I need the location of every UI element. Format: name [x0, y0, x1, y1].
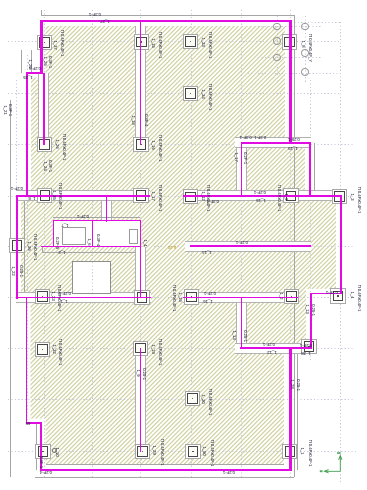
column C11 inner: [286, 191, 297, 202]
circle column K3: [273, 54, 281, 62]
grid line x=340.2: [340, 22, 341, 482]
label 0.3F-4 at 97.5,240.1: [95, 234, 99, 246]
elevator opening: [72, 261, 111, 294]
label Π 0.4Fx0.4F-1 at 60,196: [58, 183, 62, 210]
label 0.3F-1 .0,3F-1 at 253,136.5: [240, 134, 266, 138]
column C9 inner: [136, 190, 147, 201]
slab edge right lower: [289, 348, 291, 472]
dimension line bottom: [35, 476, 294, 479]
column C12 outer: [332, 189, 347, 204]
column C1 dot: [44, 42, 45, 43]
label 1_9 at 285.5,197: [283, 193, 287, 200]
column C8 dot: [44, 195, 45, 196]
label 0.2F-5 at 56.7,242.5: [54, 236, 58, 248]
label 1_30 at 203,399: [201, 394, 205, 403]
label 1_29 at 154.4,450: [152, 445, 156, 454]
beam V5 x107: [106, 196, 108, 222]
column C4 outer: [282, 34, 297, 49]
label 0.3F-1 at 49.6,61.5: [47, 55, 51, 67]
label 1_14 at 206.6,251.8: [202, 250, 211, 254]
slab edge step y72: [26, 72, 43, 74]
column C8 inner: [40, 190, 51, 201]
grid line y=144.4: [8, 144, 355, 145]
label 0.2F-1 at 210,293: [204, 291, 216, 295]
column C22 dot: [16, 245, 17, 246]
column C12 dot: [339, 196, 340, 197]
grid line y=57.5: [258, 57, 322, 58]
label 0.25-1 at 312.8,310: [311, 304, 315, 316]
grid line x=277: [277, 16, 278, 82]
stair opening band gray top: [53, 216, 140, 219]
label 0.25-1 at 244.7,336: [242, 330, 246, 342]
label Π 0.4Fx0.4F-1 at 211.5,453: [209, 440, 213, 467]
label Π 0.4Fx0.4F-1 at 159.8,198: [158, 185, 162, 212]
grid through elevator: [92, 262, 93, 293]
label 1_3 at 351.8,197: [350, 193, 354, 200]
column C17 inner: [333, 291, 344, 302]
grid line y=73.4: [248, 73, 341, 74]
slab edge x16 (195-299): [16, 195, 18, 299]
column C9 dot: [140, 195, 141, 196]
label 0.25-1 at 21.2,271: [19, 265, 23, 277]
label 0.3F-4 at 145.6,120: [143, 114, 147, 126]
column C26 inner: [285, 446, 296, 457]
label 1_4 at 351.8,295: [350, 291, 354, 298]
label Π 0.4Fx0.4F-1 at 59.6,352: [57, 339, 61, 366]
slab edge x25.5 (297-423): [26, 297, 28, 423]
column C19 outer: [133, 341, 148, 356]
gray right of notch edge: [313, 143, 316, 197]
circle column K6: [301, 68, 309, 76]
column C19 inner: [135, 343, 146, 354]
grid line y=399.4: [8, 399, 355, 400]
label 0.3F-1 at 40.8,462: [39, 456, 43, 468]
stair opening divider: [92, 220, 94, 247]
column C6 outer: [37, 137, 52, 152]
label 1_19 at 293,147.5: [288, 145, 297, 149]
label 1_50 at 204.4,451: [202, 446, 206, 455]
grid line x=16.6: [16, 80, 17, 300]
label 0.2F-1 at 242.3,242.2: [236, 240, 248, 244]
column C18 dot: [42, 349, 43, 350]
beam H6 y246: [190, 245, 311, 247]
column C4 dot: [289, 41, 290, 42]
column C24 outer: [135, 444, 150, 459]
column C10 dot: [190, 196, 191, 197]
column C12 inner: [334, 191, 345, 202]
slab edge notch bottom y293: [310, 293, 342, 295]
label 6.40 orange: [168, 245, 176, 249]
beam H8 y348: [240, 347, 312, 349]
column C25 dot: [192, 451, 193, 452]
circle column K2: [273, 37, 281, 45]
label Π 0.4Fx0.4F-1 at 159.8,45: [158, 32, 162, 59]
column C16 outer: [284, 289, 299, 304]
extension tick x31: [30, 50, 33, 73]
beam band V3: [135, 247, 146, 297]
column C23 inner: [38, 446, 49, 457]
label 1_32 at 54,349: [52, 344, 56, 353]
slab edge x309: [309, 142, 311, 196]
beam band H7b: [183, 292, 299, 303]
column C24 dot: [142, 451, 143, 452]
dimension line top: [41, 14, 294, 17]
beam H7a y297: [16, 297, 151, 299]
column C7 outer: [133, 137, 148, 152]
label 0.3F-1 at 49.8,166: [48, 160, 52, 172]
column C21 inner: [187, 393, 198, 404]
label 0.2F-4 at 46,472.3: [40, 470, 52, 474]
label 1_1 at 64,301.2: [60, 299, 67, 303]
label 1_12 at 271.8,352.3: [267, 350, 276, 354]
slab edge x310 lower: [310, 293, 312, 350]
label 1_28 at 292.3,384: [290, 379, 294, 388]
slab edge bottom: [40, 469, 291, 472]
beam band V7: [236, 298, 247, 348]
label Π 0.4Fx0.4F-1 at 160,352: [158, 339, 162, 366]
beam band H6: [185, 241, 311, 252]
beam band V2: [135, 26, 146, 145]
label 1_6 at 89.3,241.7: [87, 238, 91, 245]
column C21 dot: [192, 398, 193, 399]
label 1_36 at 29,246: [27, 241, 31, 250]
grid line y=22: [291, 22, 341, 23]
grid line x=191.4: [191, 10, 192, 478]
column C9 outer: [133, 188, 148, 203]
label Π 0.4Fx0.4F-1 at 279.4,198: [277, 185, 281, 212]
column C7 inner: [136, 139, 147, 150]
label 1_26 at 57,144: [55, 139, 59, 148]
circle column K5: [301, 49, 309, 57]
column C4 inner: [284, 37, 295, 48]
grid line y=451.4: [8, 451, 358, 452]
slab edge x26 (72-196): [26, 72, 28, 197]
beam V3 x140: [140, 247, 142, 298]
column C14 inner: [137, 292, 148, 303]
column C20 dot: [308, 346, 309, 347]
label 1_27 at 105,20.6: [100, 18, 109, 22]
column C26 dot: [289, 451, 290, 452]
column C5 outer: [183, 86, 198, 101]
gray line under opening: [42, 251, 141, 254]
column C2 inner: [136, 37, 147, 48]
grid line y=93.4: [8, 93, 341, 94]
label 65 at 27.5,423.3: [25, 421, 30, 425]
label Π 0.4Fx0.4F-1 at 174,298: [172, 285, 176, 312]
label 0.3F-1 at 9.8,110: [8, 104, 12, 116]
label 1_25 at 28,76.5: [23, 74, 32, 78]
column C22 inner: [12, 240, 23, 251]
column C2 outer: [134, 34, 149, 49]
column C14 dot: [141, 297, 142, 298]
label Π 0.4Fx0.4F-1 at 358.6,200: [356, 187, 360, 214]
label 0.25-1 at 293.5,139: [288, 137, 300, 141]
column C16 inner: [286, 291, 297, 302]
column C11 outer: [283, 188, 298, 203]
label Π 0.4Fx0.4F-1 at 61.5,43: [59, 30, 63, 57]
grid line y=297.5: [8, 297, 355, 298]
column C25 outer: [185, 444, 200, 459]
column C1 inner: [39, 37, 50, 48]
column C19 dot: [140, 348, 141, 349]
beam V7 x240: [241, 298, 243, 349]
dimension line left: [9, 100, 12, 477]
label 1_34 at 202.8,93.5: [201, 89, 205, 98]
label 1_38 at 305.5,353: [301, 351, 310, 355]
column C15 outer: [184, 289, 199, 304]
column C23 outer: [35, 444, 50, 459]
label Π 0.4Fx0.4F-1 at 358.6,298: [356, 285, 360, 312]
label 1_15 at 261,200.3: [256, 198, 265, 202]
label 1_17 at 236.3,157: [234, 152, 238, 161]
label 1_17 at 152.8,196: [151, 191, 155, 200]
column C20 outer: [301, 339, 316, 354]
column C13 dot: [42, 296, 43, 297]
column C22 outer: [9, 238, 24, 253]
stair opening outer: [53, 220, 141, 247]
beam band H8: [235, 343, 313, 354]
label 1_13 at 306.8,309: [305, 304, 309, 313]
column C20 inner: [304, 341, 315, 352]
label 1_8 at 32,198.2: [28, 196, 35, 200]
label 0.2F-1 at 269,343.6: [263, 341, 275, 345]
column C5 dot: [190, 93, 191, 94]
grid line x=92.8: [92, 10, 93, 478]
beam H3a y195: [16, 195, 150, 197]
column C7 dot: [140, 144, 141, 145]
grid line x=140.6: [140, 10, 141, 478]
label Π 0.4Fx0.4F-1 at 161.5,452: [159, 439, 163, 466]
label Π 0.4Fx0.4F_Y at 310,48: [308, 34, 312, 62]
beam band V6: [236, 144, 247, 196]
grid line y=26.5: [258, 26, 322, 27]
label 1_15 at 152.8,43: [151, 38, 155, 47]
label 0.2F-1 at 331.6,292: [326, 290, 338, 294]
column C2 dot: [141, 41, 142, 42]
grid line y=41.6: [8, 41, 341, 42]
column C6 dot: [44, 144, 45, 145]
beam V1 x44: [43, 73, 45, 145]
beam V6 x240: [241, 144, 243, 196]
circle column K1: [273, 23, 281, 31]
grid line x=241: [241, 10, 242, 478]
grid line x=310.9: [310, 80, 311, 362]
slab edge right upper: [289, 20, 291, 144]
label 1_1 at 302.3,451: [300, 447, 304, 454]
label 1_16 at 207.5,301.3: [203, 299, 212, 303]
beam H7b y297: [183, 297, 299, 299]
circle column K4: [301, 23, 309, 31]
slab edge x40 lower: [40, 422, 42, 470]
label 1_19 at 152.5,349: [150, 344, 154, 353]
beam H3b y195: [183, 195, 341, 197]
label 1_15 at 180,296.5: [178, 292, 182, 301]
label 0.2F-1 at 64.5,292.6: [58, 290, 70, 294]
column C25 inner: [188, 446, 199, 457]
label 0.2F-1 at 34.5,67.5: [28, 65, 40, 69]
column C17 outer: [330, 288, 345, 303]
column C8 outer: [37, 188, 52, 203]
label 0.2F-1 at 229,472.3: [223, 470, 235, 474]
label 1_18 at 133,120: [131, 115, 135, 124]
label 1_24 at 44.8,166: [43, 161, 47, 170]
label 1_10 at 57,452: [55, 447, 59, 456]
label 1_20 at 30,64: [28, 59, 32, 68]
column C11 dot: [290, 195, 291, 196]
grid line x=44: [44, 10, 45, 478]
beam band V5: [101, 196, 112, 221]
label circle at C23: [52, 448, 57, 453]
beam band H2: [235, 137, 312, 148]
grid line y=348.3: [8, 348, 355, 349]
tick top dim: [40, 10, 43, 17]
label 1_12 at 202.5,196: [200, 191, 204, 200]
label 1_35 at 54,195: [52, 190, 56, 199]
label 1_2 at 61.5,251.7: [58, 249, 65, 253]
slab edge step y422: [26, 422, 43, 424]
slab edge top: [41, 20, 292, 22]
extension tick x21: [20, 50, 23, 73]
column C6 inner: [39, 139, 50, 150]
axis icon: [318, 448, 348, 478]
gray left of lower-left edge: [35, 424, 38, 470]
label Π 0.4Fx0.4F-1 at 309.8,453: [308, 440, 312, 467]
label 1_4 at 144.5,242.5: [142, 239, 146, 246]
label Π 0.4Fx0.4F-1 at 64,147: [62, 134, 66, 161]
label 1_21 at 4.5,110: [2, 105, 6, 114]
stair inner rect: [62, 227, 87, 246]
label 1_16 at 152.8,145: [151, 140, 155, 149]
label 0.2F-1 at 245.3,158: [243, 152, 247, 164]
column C24 inner: [137, 446, 148, 457]
column C18 inner: [37, 344, 48, 355]
label 1_37 at 55,45: [53, 40, 57, 49]
column C3 inner: [185, 36, 196, 47]
label 0.25-1 at 298.4,385: [296, 379, 300, 391]
beam band H3a: [16, 190, 150, 201]
slab edge x340 notch: [340, 195, 342, 294]
slab edge left x41 upper: [40, 20, 42, 74]
label 1_9 at 137.5,373: [135, 369, 139, 376]
label 0.2F-1 at 260,191.5: [254, 189, 266, 193]
column C13 inner: [37, 291, 48, 302]
column C14 outer: [134, 290, 149, 305]
label Π 0.4Fx0.4F-1 at 59.3,298: [57, 285, 61, 312]
beam V4 x140: [140, 348, 142, 452]
gray inner bottom edge: [46, 463, 284, 466]
grid line x=305: [305, 16, 306, 82]
grid line x=290.7: [290, 10, 291, 478]
column C23 dot: [42, 451, 43, 452]
grid line y=196.4: [8, 196, 355, 197]
column C1 outer: [37, 35, 52, 50]
label 0.2F-1 at 17,188.3: [11, 186, 23, 190]
dimension line right2: [296, 350, 299, 470]
label 1_26 at 44.8,61: [43, 56, 47, 65]
label 1_22 at 13,271: [11, 266, 15, 275]
gray cap opening stub: [41, 246, 44, 252]
slab edge step y143: [289, 142, 311, 144]
label Π 0.4Fx0.4F-1 at 35,247: [33, 234, 37, 261]
stair landing rect: [129, 229, 137, 244]
label 1_2 at 281,296: [279, 292, 283, 299]
label 1_8 at 302.8,44: [301, 40, 305, 47]
column C15 inner: [186, 292, 197, 303]
label Π 0.4Fx0.4F-1 at 209.6,402: [207, 389, 211, 416]
opening bottom stub: [41, 246, 53, 248]
column C21 outer: [185, 391, 200, 406]
grid line y=246.4: [8, 246, 355, 247]
label 0.25-1 at 144,374: [142, 368, 146, 380]
column C3 dot: [190, 41, 191, 42]
label 1_33 at 202.8,42: [201, 37, 205, 46]
column C15 dot: [191, 296, 192, 297]
label 1_7 at 65,224.6: [61, 222, 68, 226]
label 0.3F-4 at 213,200.5: [207, 198, 219, 202]
column C3 outer: [183, 34, 198, 49]
label Π 0.4Fx0.4F-1 at 209.8,97: [208, 84, 212, 111]
column C10 inner: [185, 192, 196, 203]
beam H2 y143: [241, 142, 291, 144]
label 1_23 at 52.8,296: [51, 291, 55, 300]
label 0.2F-1 at 83,216.3: [77, 214, 89, 218]
label 1_13 at 233.5,335: [231, 330, 235, 339]
beam band H7a: [16, 292, 151, 303]
column C5 inner: [185, 88, 196, 99]
column C16 dot: [291, 296, 292, 297]
inner gray left edge: [23, 196, 26, 298]
label Π 0.4Fx0.4F-1 at 209.8,45: [208, 32, 212, 59]
beam band H3b: [183, 190, 343, 201]
beam band V4: [135, 348, 146, 452]
label Π 0.4Fx0.4F-1 at 208.4,198: [206, 185, 210, 212]
column C18 outer: [35, 342, 50, 357]
column C17 dot: [337, 295, 338, 296]
beam V2 x140: [140, 21, 142, 145]
label 0.2F-1 at 306,344.5: [300, 342, 312, 346]
beam band V1: [38, 73, 49, 145]
dimension line right: [293, 15, 296, 477]
column C26 outer: [282, 444, 297, 459]
column C10 outer: [183, 189, 198, 204]
label Π 0.4Fx0.4F-1 at 159.8,148: [158, 135, 162, 162]
label 0.3F-1 at 95,13.6: [89, 11, 101, 15]
column C13 outer: [35, 289, 50, 304]
grid line x=27: [27, 55, 28, 424]
